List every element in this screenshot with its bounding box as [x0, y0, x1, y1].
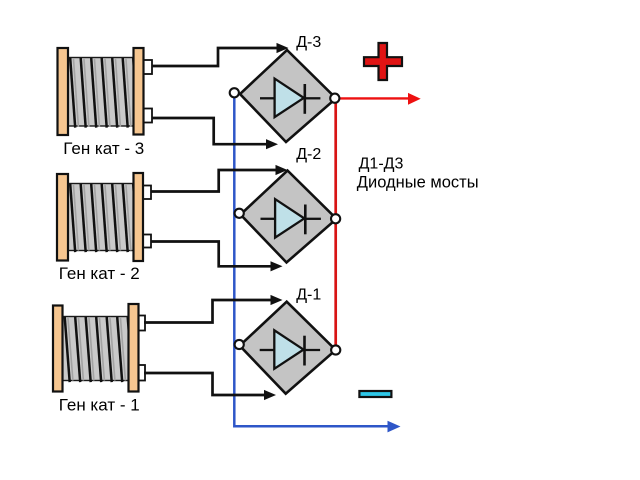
- wire: coil L2 top to D-2 AC input (arrow): [151, 165, 288, 192]
- diode bridge D-1: [240, 302, 336, 394]
- node: D-3 left (negative): [230, 88, 239, 97]
- wire: coil L1 bottom to D-1 AC input (arrow): [144, 373, 276, 400]
- wire: red positive output with arrow: [335, 93, 421, 105]
- label: Ген кат - 1: [59, 395, 140, 414]
- wire: coil L3 top to D-3 AC input (arrow): [152, 43, 289, 66]
- label: Ген кат - 2: [59, 264, 140, 283]
- diode bridge D-2: [241, 171, 337, 263]
- svg-text:Ген кат - 1: Ген кат - 1: [59, 395, 140, 414]
- wire: coil L2 bottom to D-2 AC input (arrow): [151, 242, 283, 272]
- label: Д1-Д3 Диодные мосты: [357, 155, 479, 191]
- svg-text:Ген кат - 2: Ген кат - 2: [59, 264, 140, 283]
- svg-text:Д-1: Д-1: [296, 286, 321, 303]
- wire: blue negative bus from D-3 left node down and right to arrow: [234, 93, 400, 432]
- node: D-1 right (positive): [331, 345, 340, 354]
- minus terminal symbol: [359, 391, 391, 397]
- coil L2 (Ген кат - 2): [57, 173, 151, 261]
- label: Д-2: [296, 146, 321, 163]
- svg-text:Д-3: Д-3: [296, 34, 321, 51]
- label: Д-1: [296, 286, 321, 303]
- diode bridge D-3: [240, 50, 336, 142]
- node: D-2 left (negative): [235, 209, 244, 218]
- wire: coil L1 top to D-1 AC input (arrow): [144, 295, 283, 323]
- node: D-2 right (positive): [331, 214, 340, 223]
- label: Ген кат - 3: [63, 139, 144, 158]
- wire: coil L3 bottom to D-3 AC input (arrow): [152, 118, 278, 149]
- label: Д-3: [296, 34, 321, 51]
- svg-text:Диодные мосты: Диодные мосты: [357, 173, 479, 191]
- svg-text:Ген кат - 3: Ген кат - 3: [63, 139, 144, 158]
- svg-text:Д1-Д3: Д1-Д3: [359, 155, 404, 172]
- node: D-1 left (negative): [235, 340, 244, 349]
- svg-text:Д-2: Д-2: [296, 146, 321, 163]
- plus terminal symbol: [364, 43, 402, 80]
- wire: red positive bus vertical linking right nodes of D-3..D-1: [334, 98, 337, 350]
- node: D-3 right (positive): [330, 94, 339, 103]
- coil L1 (Ген кат - 1): [53, 304, 145, 392]
- coil L3 (Ген кат - 3): [58, 48, 153, 135]
